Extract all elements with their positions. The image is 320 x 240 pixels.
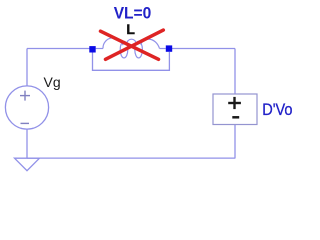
red cross-out X over inductor [101,30,164,59]
box plus sign [228,97,241,109]
wire short-circuit detour below inductor [93,52,170,70]
wire right vertical upper [234,49,236,95]
wire top-right horizontal [171,48,235,50]
wire bottom horizontal [27,157,235,159]
dependent source box D'Vo [213,94,257,125]
wire top-left horizontal [27,48,90,50]
inductor L [96,38,166,58]
node left (blue square) [89,46,95,52]
svg-text:VL=0: VL=0 [114,4,152,23]
svg-text:D'Vo: D'Vo [262,101,292,119]
node right (blue square) [166,45,172,51]
svg-text:L: L [126,21,135,37]
wire left vertical lower [26,129,28,158]
box minus sign [232,116,239,119]
svg-text:Vg: Vg [44,74,61,90]
ground [15,158,40,171]
voltage source Vg [5,86,48,129]
wire right vertical lower [234,125,236,159]
wire left vertical upper [26,49,28,87]
